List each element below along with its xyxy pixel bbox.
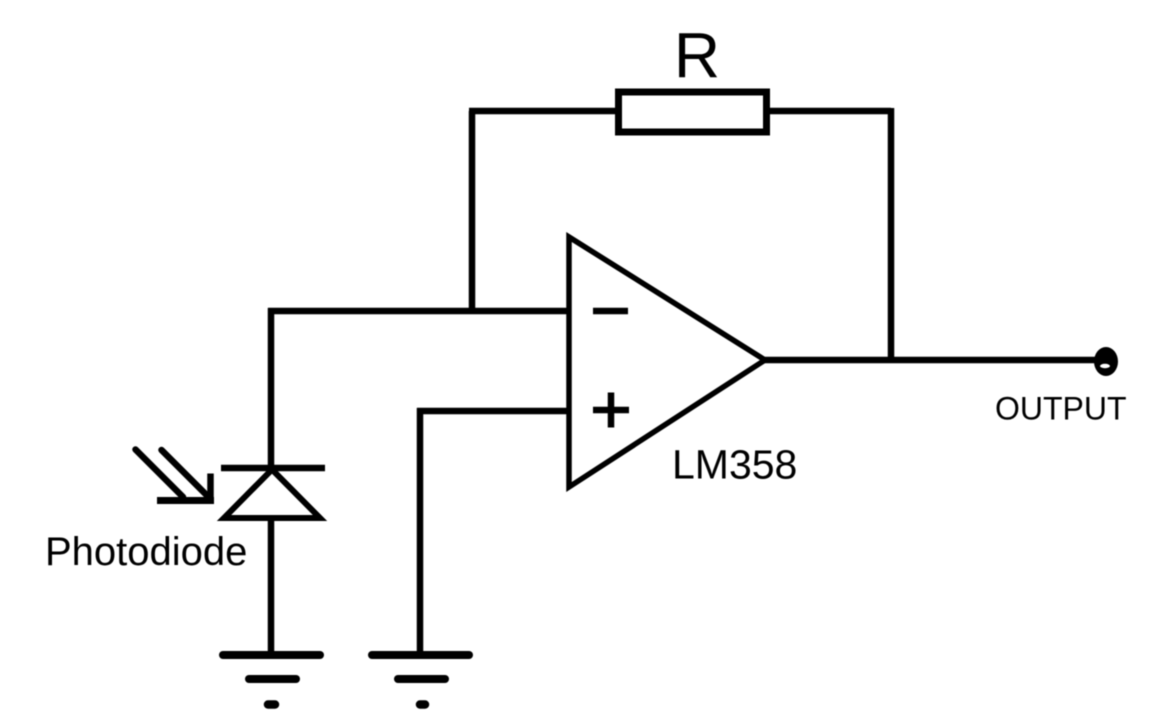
photodiode D1 cathode bar	[221, 465, 325, 472]
svg-text:R: R	[674, 20, 720, 92]
wire: output horizontal (y=360)	[765, 357, 1100, 364]
ground G2 bar 1	[372, 651, 469, 659]
wire: feedback top-left vertical (x=471, y 111-311)	[469, 111, 476, 311]
ground G2 bar 3	[420, 700, 425, 709]
op-amp U1 triangle	[569, 237, 765, 487]
ground G1 bar 1	[223, 651, 320, 659]
wire: non-inverting input horizontal (y=411)	[417, 408, 569, 415]
svg-text:LM358: LM358	[672, 442, 797, 488]
light arrow head vertical bar	[207, 474, 214, 505]
photodiode D1 triangle	[224, 470, 320, 519]
ground G1 bar 3	[268, 700, 275, 709]
light arrow 1	[136, 450, 184, 498]
light arrow head horizontal bar	[157, 497, 214, 504]
ground G2 bar 2	[398, 675, 445, 683]
light arrow 2 shaft	[162, 450, 209, 497]
wire: inverting input horizontal (y=311)	[268, 308, 569, 315]
resistor R body	[619, 92, 767, 132]
wire: non-inverting ground vertical (x=420, y 411-655)	[417, 408, 424, 655]
wire: feedback right vertical (x=891, y 111-360)	[888, 108, 895, 360]
wire: photodiode top vertical (x=271, y 311-468)	[268, 308, 275, 468]
wire: top horizontal right segment from resistor	[767, 108, 891, 115]
wire: top horizontal left segment to resistor	[469, 108, 618, 115]
wire: photodiode bottom vertical (x=271, y 518-655)	[268, 516, 275, 655]
svg-text:Photodiode: Photodiode	[45, 530, 247, 574]
op-amp inverting input minus sign	[593, 308, 628, 315]
ground G1 bar 2	[249, 675, 296, 683]
svg-text:OUTPUT: OUTPUT	[995, 391, 1127, 427]
op-amp non-inverting input plus sign	[593, 393, 629, 428]
output terminal circle	[1094, 347, 1118, 376]
